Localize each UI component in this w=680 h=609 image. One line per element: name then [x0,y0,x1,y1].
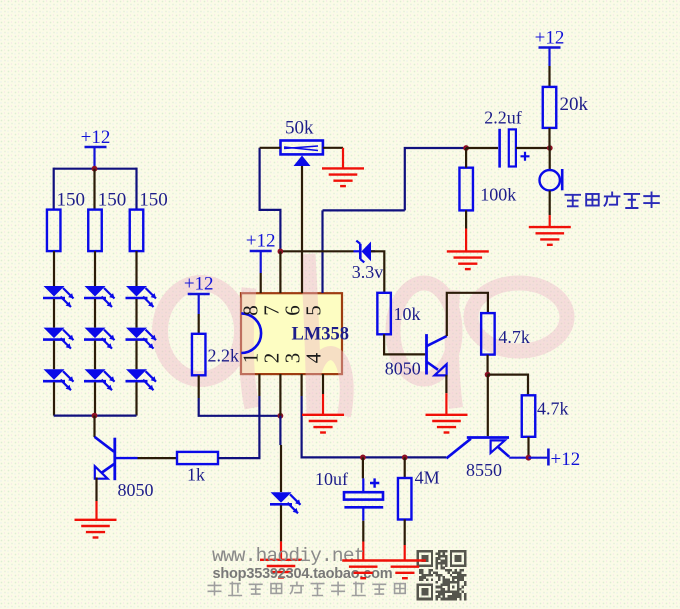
node cap right junction dot [547,145,553,151]
svg-text:10k: 10k [394,304,421,324]
resistor 150 second [88,210,102,252]
svg-text:100k: 100k [480,185,516,205]
wire 4.7k junction to second 4.7k [488,375,528,396]
wire 100k top lead [465,148,467,168]
wire column3 top [135,168,137,210]
wire column3 resistor to LED row1 [135,251,137,286]
resistor 4M [398,478,412,520]
svg-text:LM358: LM358 [292,325,350,345]
ground under LED [260,560,302,578]
LED indicator [270,492,301,513]
wire pin2 lead [279,374,281,416]
ground under Q2 [426,415,468,433]
LED row3 col1 [43,369,74,390]
wire Q1 base to R 1k [138,457,178,459]
LED row1 col3 [126,286,157,307]
wire column3 row1-row2 [135,299,137,328]
resistor 20k [543,87,557,128]
wire 10uf ground lead red [362,542,364,561]
transistor Q1 8050 [95,437,138,480]
svg-text:3.3v: 3.3v [352,262,384,282]
wire cap left lead [466,147,498,149]
wire +12 stem to rail [93,147,95,169]
power +12 at pin8 [246,231,276,294]
wire 20k bottom lead [548,128,550,148]
ground under 100k [447,251,489,269]
resistor 2.2k [192,334,206,376]
wire mic top lead [549,148,551,170]
wire pin3 lead [301,374,303,396]
node rail-left junction dot [92,166,98,172]
ground under pin4 [302,415,344,433]
svg-text:+12: +12 [81,127,111,148]
wire 4.7k second bottom [527,437,529,458]
wire pot-left branch to pin7 [260,148,281,252]
label mic chinese glyphs [565,195,582,207]
wire 10k bottom to Q2 base [384,334,425,354]
wire mic ground lead red [549,215,551,227]
wire Q2 emitter ground lead red [445,393,447,415]
resistor 4.7k second [522,395,536,437]
wire column1 row2-row3 [53,341,55,370]
wire column1 bottom [53,382,55,415]
zener diode 3.3v [354,241,376,263]
wire column3 bottom [135,382,137,415]
node 10uf junction dot [360,455,366,461]
wire pin2 net down to LED [279,416,281,445]
resistor 150 third [130,210,144,252]
svg-text:5: 5 [302,305,326,316]
wire +12 node to zener [283,250,354,252]
wire pin1 lead black [258,374,260,396]
LED row1 col1 [43,286,74,307]
op-amp U1 LM358 body [241,293,342,374]
watermark chinese scan-qr text [208,582,222,596]
svg-text:4.7k: 4.7k [498,327,530,347]
svg-text:4: 4 [302,352,326,363]
LED row3 col2 [84,369,115,390]
svg-text:1k: 1k [187,465,205,485]
transistor Q2 8050 [427,334,447,375]
ground under mic [529,227,571,245]
wire 4M top lead [404,457,406,478]
svg-text:20k: 20k [560,94,589,115]
wire pot left lead [260,147,281,149]
wire 100k bottom lead [465,210,467,228]
LED row2 col3 [126,328,157,349]
svg-text:2.2uf: 2.2uf [484,107,522,127]
wire pin4 lead [322,374,324,394]
wire pot wiper to pin6 [301,166,303,293]
wire 8550 emitter to +12 [509,457,528,459]
wire 4M ground lead red [404,545,406,561]
svg-text:150: 150 [139,190,168,211]
wire Q1 emitter ground lead red [95,501,97,520]
wire 10uf top lead [362,457,364,478]
node pin7 +12 junction dot [278,249,284,255]
wire column2 top [93,169,95,210]
svg-text:4M: 4M [415,467,440,487]
wire column2 bottom [94,382,96,415]
op-amp U1 notch [241,313,261,353]
wire LED cathode down [280,505,282,541]
svg-text:8050: 8050 [385,359,421,379]
wire LED ground lead red [280,541,282,559]
wire column1 resistor to LED row1 [53,251,55,286]
capacitor 2.2uf [500,129,530,168]
resistor 10k [377,293,391,335]
node 4M junction dot [402,455,408,461]
resistor 150 first [47,210,61,252]
svg-text:+12: +12 [551,449,581,470]
wire column2 resistor to LED row1 [94,251,96,286]
potentiometer 50k [281,141,323,167]
wire pot right ground lead red [342,148,344,169]
ground under 4M [384,561,426,579]
wire 4.7k first bottom [487,355,489,375]
wire mic net vertical to pin5 [321,210,323,293]
LED row1 col2 [84,286,115,307]
resistor 1k horizontal [177,452,218,464]
svg-text:+12: +12 [184,274,214,295]
resistor 4.7k first [481,313,495,355]
wire column3 row2-row3 [135,341,137,370]
transistor Q3 8550 [446,438,509,459]
power +12 above 2.2k [184,274,214,334]
qr code [417,550,467,600]
svg-text:50k: 50k [285,118,314,139]
wire 10uf bottom lead [362,509,364,521]
wire zener to 10k corner [371,251,384,292]
node 8550 +12 junction dot [526,455,532,461]
svg-text:+12: +12 [246,231,276,252]
wire 100k ground lead red [465,229,467,252]
wire column1 top [53,168,55,210]
svg-text:4.7k: 4.7k [537,399,569,419]
wire cap right lead [516,147,550,149]
wire column2 row2-row3 [94,341,96,370]
wire 8550 base [487,375,489,437]
power +12 terminal right [529,449,581,471]
node pin2 net junction dot [278,413,284,419]
svg-text:10uf: 10uf [315,469,348,489]
electret microphone [540,169,563,190]
wire top rail [54,168,137,170]
node bottom rail junction dot [92,413,98,419]
wire mic net horizontal [405,148,466,210]
wire 1k to pin1 corner [218,396,259,458]
power +12 top-right [535,28,565,87]
svg-text:8550: 8550 [466,460,502,480]
wire Q2 emitter down [445,375,447,393]
svg-text:150: 150 [98,190,127,211]
wire mic bottom lead [549,191,551,216]
wire 2.2k to pin2 net [199,398,281,416]
node 4.7k junction dot [485,372,491,378]
LED row3 col3 [126,369,157,390]
LED row2 col1 [43,328,74,349]
capacitor 10uf [344,478,383,507]
power +12 top-left [81,127,111,148]
ground under 10uf [342,561,384,579]
svg-text:8050: 8050 [118,480,154,500]
wire column1 row1-row2 [53,299,55,328]
svg-text:www.haodiy.net: www.haodiy.net [212,545,365,567]
wire Q2 collector up [447,293,488,336]
wire Q1 collector from rail [93,416,95,437]
resistor 100k rect [459,168,473,211]
wire Q1 emitter down [95,477,97,501]
wire pin4 ground lead red [322,394,324,415]
wire pin7 lead [279,251,281,293]
LED row2 col2 [84,328,115,349]
svg-text:150: 150 [57,190,86,211]
svg-text:2.2k: 2.2k [208,346,240,366]
ground under Q1 [75,520,117,538]
wire column2 row1-row2 [94,299,96,328]
wire pot right lead [323,147,343,149]
watermark ahao [160,254,567,416]
svg-text:+12: +12 [535,28,565,49]
node cap left junction dot [463,145,469,151]
ground at pot right [322,168,364,186]
wire 2.2k bottom [198,375,200,398]
wire 4M bottom lead [404,519,406,545]
wire pin3 to bottom net [302,396,447,457]
wire bottom rail [54,415,137,417]
